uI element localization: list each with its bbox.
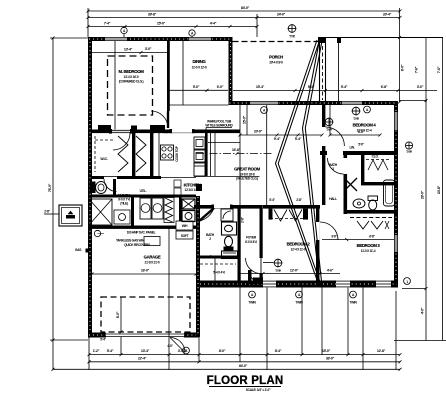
wic bifold 1 <box>118 136 128 172</box>
dim: bedroom4 interior <box>329 105 382 137</box>
porch beam dashed <box>233 41 321 43</box>
wall: wic closet divider <box>132 133 135 177</box>
wall: kitchen/hall south <box>194 205 261 209</box>
wall: foyer east <box>260 205 263 258</box>
dim: garage door vert <box>116 297 123 334</box>
svg-text:2'-8": 2'-8" <box>44 210 50 214</box>
wall: mbath top <box>92 195 196 198</box>
wall: wc top <box>92 176 196 179</box>
svg-text:GAS: GAS <box>75 248 82 252</box>
dim left connector bottom <box>50 339 88 341</box>
svg-text:5'-4": 5'-4" <box>269 198 275 202</box>
pantry corner box <box>221 209 233 221</box>
svg-text:15'-0": 15'-0" <box>243 115 247 124</box>
window tag bottom 1 <box>248 291 256 304</box>
svg-text:UTIL.: UTIL. <box>140 189 147 193</box>
room label: CLO <box>372 155 379 159</box>
ceiling fan 4 <box>288 24 297 39</box>
svg-text:W/H: W/H <box>182 224 188 228</box>
svg-text:(TILE): (TILE) <box>120 202 128 206</box>
wall: garage east <box>196 196 200 337</box>
wall: bedroom4 west lower <box>322 146 325 205</box>
door jambs master <box>150 130 169 134</box>
dim row B <box>88 356 402 363</box>
svg-text:29'-4 X 8'-0: 29'-4 X 8'-0 <box>269 61 283 65</box>
kitchen counter right <box>239 105 241 205</box>
svg-text:76'-0": 76'-0" <box>48 183 52 192</box>
svg-text:A: A <box>251 293 254 297</box>
detail marker box <box>44 205 82 226</box>
room label: KITCHEN <box>184 183 201 193</box>
bedroom2 closet doors <box>269 198 306 221</box>
svg-text:4'-6": 4'-6" <box>327 269 334 273</box>
svg-text:1: 1 <box>406 280 408 284</box>
svg-text:8'-0": 8'-0" <box>116 311 120 318</box>
svg-text:5'-4": 5'-4" <box>100 338 106 342</box>
svg-text:8'-0": 8'-0" <box>219 349 226 353</box>
wall: foyer west <box>238 205 241 288</box>
wall: garage north <box>88 226 196 229</box>
svg-text:TWIN: TWIN <box>295 301 303 305</box>
porch right edge <box>399 8 401 102</box>
bath2 tub <box>222 251 238 259</box>
dim row C <box>52 364 402 371</box>
dim ext: master vertical <box>114 41 116 130</box>
wall: closet/kitchen divider <box>150 133 153 177</box>
svg-text:84'-0": 84'-0" <box>239 364 248 368</box>
tag garage door <box>100 338 189 354</box>
ceiling fan 2 <box>352 107 361 122</box>
window: bedroom2 south <box>336 281 350 288</box>
door arc: bedroom3 <box>320 222 338 240</box>
ceiling fan 1 <box>325 118 334 133</box>
dim line top overall <box>87 6 402 13</box>
svg-text:15'-4": 15'-4" <box>256 85 265 89</box>
dim: bedroom4 top <box>233 85 437 92</box>
svg-text:DINING: DINING <box>193 59 207 64</box>
svg-text:7'-6": 7'-6" <box>437 66 441 73</box>
svg-text:21'-8 X 21'-0: 21'-8 X 21'-0 <box>145 261 160 265</box>
dim line top level2 <box>87 13 402 20</box>
wall: bedroom4 west upper <box>322 105 325 127</box>
room label: BEDROOM 4 <box>353 123 377 133</box>
opening: kitchen hall <box>172 130 192 133</box>
dim: great room centerline <box>196 148 272 155</box>
stoop <box>213 259 225 281</box>
dim ext x257 <box>256 14 258 37</box>
utility appliances <box>182 199 195 222</box>
title: FLOOR PLAN <box>207 375 284 392</box>
cooktop <box>161 145 180 162</box>
svg-text:A: A <box>123 29 126 33</box>
closet stub west <box>269 209 273 220</box>
window tag 2 <box>189 30 195 37</box>
svg-text:20'-0": 20'-0" <box>254 130 263 134</box>
porch edge line <box>318 37 443 39</box>
oven stack <box>194 137 205 176</box>
window tag bottom 3 <box>349 291 357 304</box>
svg-text:2'-8": 2'-8" <box>296 198 302 202</box>
svg-text:24'-8": 24'-8" <box>437 185 441 194</box>
svg-text:6'-0 X 8'-0: 6'-0 X 8'-0 <box>245 240 257 244</box>
door opening: bedroom2 <box>246 258 262 274</box>
wall: dining east exterior <box>229 41 233 101</box>
wall: utility strip <box>179 197 182 226</box>
svg-text:13'-4": 13'-4" <box>124 48 133 52</box>
svg-text:11'-0 X 12'-0: 11'-0 X 12'-0 <box>192 66 207 70</box>
laundry washer <box>140 198 151 219</box>
svg-text:SOFT: SOFT <box>181 234 189 238</box>
svg-text:7'-6": 7'-6" <box>415 66 419 73</box>
bath3 tub <box>384 180 395 206</box>
svg-text:FOYER: FOYER <box>246 236 257 240</box>
svg-text:BEDROOM 4: BEDROOM 4 <box>353 123 377 128</box>
svg-text:GARAGE: GARAGE <box>144 255 161 260</box>
svg-text:FLOOR PLAN: FLOOR PLAN <box>207 375 284 387</box>
ceiling fan 3 <box>274 259 283 274</box>
svg-text:16'-0": 16'-0" <box>141 269 150 273</box>
svg-text:5'-4": 5'-4" <box>341 85 348 89</box>
wall: wc/mbath divider <box>113 179 116 195</box>
entry door arc <box>248 270 263 284</box>
door leaf: master bedroom <box>167 111 169 128</box>
svg-text:84'-0": 84'-0" <box>241 6 250 10</box>
dim left connector top <box>50 37 88 39</box>
dim line right outer <box>437 102 443 341</box>
wall: bath3/closet mid <box>361 182 398 185</box>
svg-text:COOK TOP: COOK TOP <box>175 145 179 161</box>
svg-text:15'-0": 15'-0" <box>322 349 331 353</box>
wall: bedroom2 closet north <box>263 205 320 209</box>
door arc: bath3 <box>328 158 344 174</box>
svg-text:8'-0": 8'-0" <box>401 64 405 71</box>
svg-text:5'-4 X 4'-0: 5'-4 X 4'-0 <box>213 271 225 275</box>
wall: right exterior <box>394 105 398 288</box>
room label: WIC <box>100 157 108 161</box>
porch post 2 <box>337 38 341 101</box>
room label: DINING <box>192 59 207 70</box>
svg-text:4'-0": 4'-0" <box>421 307 425 314</box>
closet stub east <box>303 209 308 220</box>
svg-text:12'-8": 12'-8" <box>377 349 386 353</box>
window: master bedroom north <box>105 37 127 41</box>
svg-text:5'-0": 5'-0" <box>358 143 364 147</box>
dim: garage interior <box>91 269 198 276</box>
window tags north <box>261 106 371 113</box>
dim: great room width <box>239 130 324 142</box>
dim line top level3 <box>87 22 259 29</box>
svg-text:29'-0": 29'-0" <box>421 190 425 199</box>
svg-text:M. BEDROOM: M. BEDROOM <box>119 69 145 74</box>
svg-text:13'-4 X 16'-0: 13'-4 X 16'-0 <box>124 75 139 79</box>
wall: left exterior (hatched) <box>88 37 92 337</box>
svg-text:TYP.: TYP. <box>353 117 360 121</box>
room label: BEDROOM 2 <box>287 242 311 252</box>
room label: BATH2 <box>206 233 215 241</box>
svg-text:TYP.: TYP. <box>326 128 333 132</box>
svg-text:3'-0": 3'-0" <box>417 85 424 89</box>
dim line left <box>48 37 55 342</box>
pantry door diagonal <box>199 208 215 222</box>
room label: M. BATH <box>118 194 131 206</box>
svg-text:100 AMP SVC. PANEL: 100 AMP SVC. PANEL <box>127 231 156 235</box>
svg-text:5'-0": 5'-0" <box>193 85 200 89</box>
wall: foyer east lower <box>260 274 263 281</box>
room label: GARAGE <box>144 255 161 265</box>
svg-text:9'-4": 9'-4" <box>274 137 281 141</box>
svg-text:GREAT ROOM: GREAT ROOM <box>234 167 261 172</box>
wall: bath3 west <box>344 155 348 214</box>
svg-text:W.I.C.: W.I.C. <box>100 157 108 161</box>
left gas label <box>75 248 90 253</box>
wall: bath3 south <box>346 210 398 214</box>
wc toilet <box>90 182 107 194</box>
svg-text:QUICK RECOVERY: QUICK RECOVERY <box>124 243 151 247</box>
mbath shower <box>89 199 112 225</box>
door opening: bedroom4 in south wall <box>327 151 343 155</box>
svg-text:22'-4": 22'-4" <box>138 356 147 360</box>
wall: kitchen east stub <box>205 133 208 177</box>
svg-text:CLO.: CLO. <box>372 155 379 159</box>
porch post <box>318 37 326 103</box>
dim row A <box>88 349 402 356</box>
svg-text:5'-4": 5'-4" <box>107 349 114 353</box>
room label: BEDROOM 3 <box>322 235 394 254</box>
garage equip boxes <box>176 221 193 239</box>
dim line right inner <box>421 99 428 341</box>
room label: BATH3 <box>329 163 338 171</box>
svg-text:2'-8": 2'-8" <box>241 216 245 222</box>
svg-text:HALL: HALL <box>329 197 337 201</box>
garage door dashed box <box>101 297 190 332</box>
svg-text:BEDROOM 3: BEDROOM 3 <box>357 243 381 248</box>
window: great room south <box>263 281 276 288</box>
window: great room north <box>250 101 278 105</box>
vault diagonal pair 1 <box>276 40 322 287</box>
svg-text:36'-0": 36'-0" <box>326 356 335 360</box>
svg-text:13'-4": 13'-4" <box>141 349 150 353</box>
wall: right-wing south exterior <box>199 281 398 288</box>
dim right connectors <box>394 101 446 341</box>
door arc: master bedroom <box>151 111 168 128</box>
wall: garage south exterior <box>88 333 199 338</box>
kitchen counter line <box>158 133 160 177</box>
svg-text:12'-0 X 11'-4: 12'-0 X 11'-4 <box>357 129 372 133</box>
svg-text:6'-8": 6'-8" <box>381 85 388 89</box>
svg-text:15'-0": 15'-0" <box>157 22 166 26</box>
garage door opening <box>106 333 184 338</box>
door jambs kitchen hall <box>170 129 195 133</box>
svg-text:20'-4": 20'-4" <box>383 13 392 17</box>
svg-text:BEDROOM 2: BEDROOM 2 <box>287 242 311 247</box>
dim text right upper <box>437 66 441 73</box>
svg-text:W/ TILE SURROUND: W/ TILE SURROUND <box>205 124 233 128</box>
dim ext bottom verticals <box>53 229 396 371</box>
wall: right-wing north exterior <box>229 101 399 105</box>
linen boxes <box>174 180 181 195</box>
bath3 sink <box>353 199 365 208</box>
bath2 vanity <box>222 222 237 235</box>
wall: coat closet north <box>196 256 240 259</box>
svg-text:6'-0": 6'-0" <box>217 85 224 89</box>
svg-text:TWIN: TWIN <box>248 301 256 305</box>
svg-text:7'-4": 7'-4" <box>104 22 111 26</box>
wall: laundry/mbath divider <box>131 197 134 226</box>
svg-text:A: A <box>366 108 369 112</box>
window: bedroom3 south <box>376 281 391 288</box>
water heater zigzag <box>164 198 174 223</box>
svg-text:16'-8": 16'-8" <box>232 148 241 152</box>
kitchen island <box>194 133 260 177</box>
wall: top-left exterior <box>88 37 233 41</box>
bath3 toilet <box>368 196 378 210</box>
svg-text:12'-0": 12'-0" <box>290 269 299 273</box>
vault diagonal pair 2 <box>303 40 323 287</box>
svg-text:TWIN: TWIN <box>349 301 357 305</box>
svg-text:12'-8 X 13'-0: 12'-8 X 13'-0 <box>185 188 200 192</box>
dim ext top left <box>87 8 89 37</box>
wall stubs above corridor <box>98 125 165 130</box>
wall: master/dining <box>167 41 170 111</box>
mbath vanity <box>114 210 130 224</box>
room label: GREAT ROOM <box>234 167 261 181</box>
svg-text:4'-0": 4'-0" <box>167 344 173 348</box>
closet shelves dashed <box>95 136 115 172</box>
room label: UTIL <box>140 189 147 193</box>
svg-text:A: A <box>352 293 355 297</box>
room label: LIN <box>349 146 354 150</box>
svg-text:TYP.: TYP. <box>275 269 282 273</box>
svg-text:A: A <box>191 32 194 36</box>
svg-text:TANKLESS GAS W/H: TANKLESS GAS W/H <box>116 239 145 243</box>
window tag bottom 2 <box>295 291 303 304</box>
svg-text:LIN.: LIN. <box>349 146 354 150</box>
fan leader bedroom2 <box>263 262 274 264</box>
window tag 1 <box>121 27 127 37</box>
attic access X <box>344 178 357 191</box>
svg-text:11'-0 X 11'-4: 11'-0 X 11'-4 <box>361 249 376 253</box>
window: bedroom3 east <box>394 235 398 252</box>
wall: bath3 north <box>320 151 398 155</box>
door opening: hall-kitchen <box>214 205 230 208</box>
door arc: wic <box>113 133 130 150</box>
svg-text:TYP.: TYP. <box>406 150 413 154</box>
whirlpool note <box>205 120 233 132</box>
room label: M. BEDROOM <box>119 69 145 84</box>
door opening: bedroom3 <box>316 222 319 240</box>
svg-text:A: A <box>298 293 301 297</box>
wall: closet divider <box>361 155 364 184</box>
porch dashed vertical <box>322 46 324 100</box>
wall: bedroom2/3 divider <box>316 205 319 281</box>
dim rot: great room <box>243 105 267 205</box>
kitchen wall fixture <box>196 184 202 191</box>
svg-text:5'-4": 5'-4" <box>308 85 315 89</box>
svg-text:(COFFERED CLG.): (COFFERED CLG.) <box>119 80 144 84</box>
svg-text:A: A <box>263 109 266 113</box>
window: dining north <box>189 37 211 41</box>
svg-text:39'-8": 39'-8" <box>148 13 157 17</box>
room label: FOYER <box>245 236 257 245</box>
fan tag right <box>405 142 412 154</box>
closet shelf zigzag <box>366 160 390 171</box>
master bedroom coffered ceiling dashed box <box>108 56 153 115</box>
svg-text:3'-6": 3'-6" <box>331 235 337 239</box>
wc door arc <box>104 179 117 192</box>
svg-text:12'-4 X 11'-0: 12'-4 X 11'-0 <box>291 248 306 252</box>
shower curtain dashed <box>350 217 392 219</box>
coat closet door <box>200 216 245 264</box>
laundry dryer <box>152 198 163 219</box>
svg-text:KITCHEN: KITCHEN <box>184 183 201 188</box>
svg-text:8'-4": 8'-4" <box>275 349 282 353</box>
door opening: wic <box>112 130 130 134</box>
svg-text:1'-2": 1'-2" <box>93 349 100 353</box>
dim porch right rot text <box>398 36 419 104</box>
wall: left-wing middle corridor <box>92 130 240 134</box>
wic bifold 2 <box>136 136 146 172</box>
svg-text:6'-8": 6'-8" <box>369 235 375 239</box>
svg-text:24'-0": 24'-0" <box>277 13 286 17</box>
dim: dining interior <box>169 41 229 105</box>
tag right lower <box>404 278 411 285</box>
svg-text:3'-0": 3'-0" <box>145 47 152 51</box>
dim: foyer line <box>238 269 341 276</box>
door jambs wic <box>109 129 133 134</box>
window: bedroom4 east <box>394 112 398 130</box>
svg-text:5'-4": 5'-4" <box>295 137 302 141</box>
bath2 toilet <box>224 236 234 250</box>
svg-text:SCALE: 1/4" = 1'-0": SCALE: 1/4" = 1'-0" <box>246 388 271 392</box>
dim: master top interior <box>92 47 167 54</box>
door arc: bedroom4 <box>325 127 344 146</box>
window: bedroom4 north <box>342 101 362 105</box>
garage equip text <box>124 243 151 247</box>
svg-text:4'-4": 4'-4" <box>210 22 217 26</box>
svg-text:TYP.: TYP. <box>289 35 296 39</box>
room label: PORCH <box>269 55 283 65</box>
svg-text:2: 2 <box>209 237 211 241</box>
door jambs hall <box>212 205 233 209</box>
svg-text:PORCH: PORCH <box>269 55 283 60</box>
bedroom3 closet doors <box>357 221 389 229</box>
garage floor drain <box>94 230 104 236</box>
svg-text:(VAULTED CLG.): (VAULTED CLG.) <box>236 177 258 181</box>
porch far right line <box>426 38 443 103</box>
garage svc text <box>116 231 160 246</box>
room label: HALL <box>329 143 364 202</box>
